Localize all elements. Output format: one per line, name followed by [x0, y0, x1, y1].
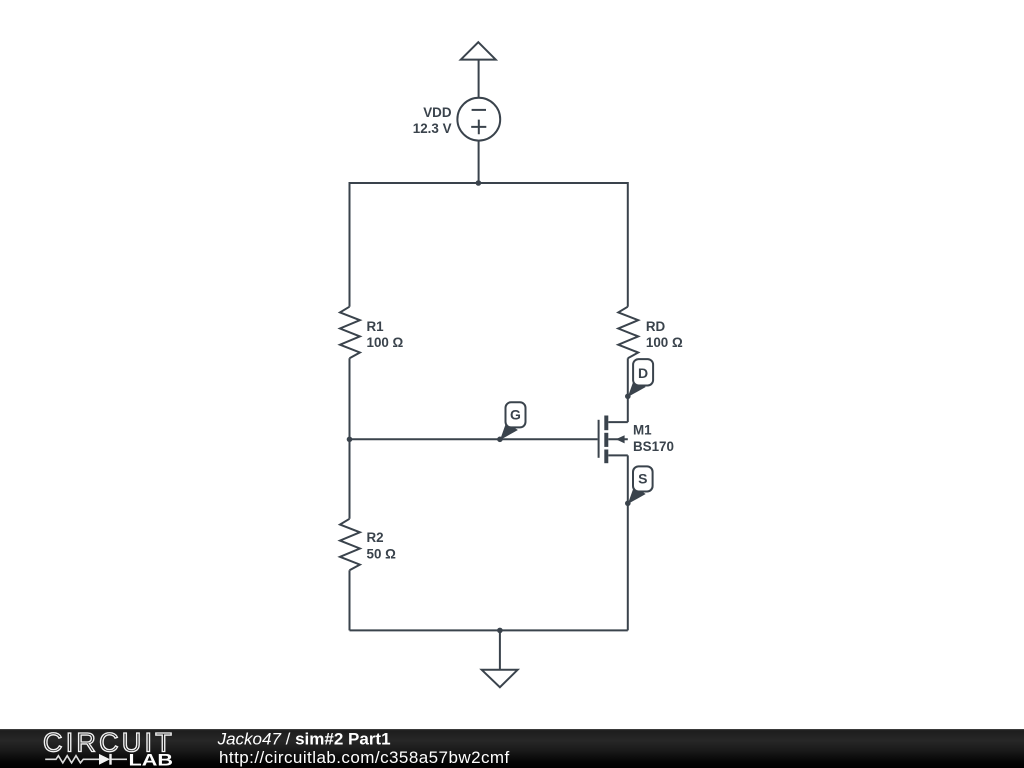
- wire top rail: [350, 182, 628, 184]
- wire bottom rail: [350, 629, 628, 631]
- mosfet M1 gate bar: [598, 420, 600, 458]
- node dot top rail: [476, 180, 482, 186]
- node D dot: [625, 394, 631, 400]
- mosfet M1 channel segment bottom: [604, 450, 608, 464]
- svg-text:100 Ω: 100 Ω: [646, 335, 683, 350]
- resistor R2: [340, 519, 360, 571]
- pin flag G box: [506, 402, 526, 427]
- logo wire to LAB: [112, 758, 128, 760]
- svg-text:RD: RD: [646, 319, 666, 334]
- logo diode triangle: [99, 754, 110, 765]
- node S dot: [625, 501, 631, 507]
- svg-text:Jacko47 / sim#2 Part1: Jacko47 / sim#2 Part1: [217, 730, 391, 749]
- pin flag S tail: [628, 487, 646, 505]
- voltage source plus sign: [471, 120, 486, 135]
- logo resistor-diode squiggle: [45, 756, 99, 763]
- pin flag S box: [633, 466, 653, 491]
- wire gate horizontal: [350, 438, 598, 440]
- svg-text:BS170: BS170: [633, 439, 674, 454]
- wire left branch upper: [349, 182, 351, 307]
- svg-text:M1: M1: [633, 423, 652, 438]
- svg-text:VDD: VDD: [423, 105, 452, 120]
- wire right branch upper: [627, 182, 629, 307]
- wire left branch middle: [349, 358, 351, 519]
- svg-text:G: G: [510, 407, 521, 423]
- pin flag G tail: [500, 423, 518, 441]
- wire left branch lower: [349, 570, 351, 630]
- mosfet M1 channel segment middle: [604, 433, 608, 447]
- resistor RD: [618, 307, 638, 359]
- svg-text:R2: R2: [367, 530, 384, 545]
- wire ground stem: [499, 630, 501, 669]
- ground: [482, 670, 518, 687]
- wire source V1 to top rail: [478, 141, 480, 183]
- mosfet M1 body lead: [608, 438, 628, 440]
- svg-text:S: S: [638, 471, 647, 487]
- resistor R1: [340, 307, 360, 359]
- pin flag D tail: [628, 380, 646, 398]
- node G dot: [497, 437, 503, 443]
- mosfet M1 drain lead: [608, 421, 628, 423]
- svg-text:R1: R1: [367, 319, 385, 334]
- voltage source minus sign: [472, 109, 486, 111]
- svg-text:100 Ω: 100 Ω: [367, 335, 404, 350]
- wire drain vertical: [627, 358, 629, 422]
- svg-text:12.3 V: 12.3 V: [413, 121, 452, 136]
- node A gate junction dot: [347, 437, 353, 443]
- logo diode bar: [109, 754, 111, 765]
- power flag VDD arrow: [461, 42, 496, 59]
- svg-text:50 Ω: 50 Ω: [367, 547, 397, 562]
- wire power flag to source V1: [478, 60, 480, 99]
- footer bar: [0, 729, 1024, 768]
- svg-text:http://circuitlab.com/c358a57b: http://circuitlab.com/c358a57bw2cmf: [219, 748, 510, 767]
- pin flag D box: [633, 359, 653, 385]
- mosfet M1 body arrow: [616, 435, 625, 443]
- mosfet M1 source lead: [608, 454, 628, 456]
- wire source vertical: [627, 455, 629, 630]
- node dot bottom rail: [497, 628, 503, 634]
- voltage source VDD circle: [457, 98, 500, 141]
- svg-text:LAB: LAB: [129, 751, 174, 768]
- mosfet M1 channel segment top: [604, 416, 608, 431]
- svg-text:D: D: [638, 365, 648, 381]
